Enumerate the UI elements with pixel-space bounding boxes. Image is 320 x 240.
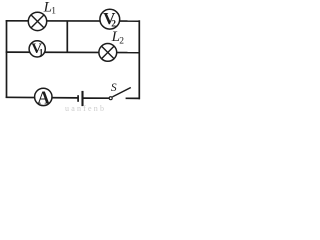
svg-text:S: S bbox=[111, 82, 117, 94]
battery bbox=[78, 91, 82, 106]
lamp L2 bbox=[99, 44, 117, 62]
label L1 bbox=[43, 0, 57, 17]
svg-text:1: 1 bbox=[39, 48, 44, 58]
wire: left vertical (top-left corner to bottom-left corner) bbox=[6, 20, 8, 98]
svg-text:2: 2 bbox=[119, 36, 124, 46]
voltmeter V2 bbox=[100, 9, 120, 29]
svg-text:A: A bbox=[37, 88, 50, 108]
lamp L1 bbox=[28, 12, 46, 30]
wire: battery to switch bbox=[83, 97, 110, 99]
label L2 bbox=[111, 29, 125, 46]
wire: right vertical bbox=[138, 20, 140, 99]
wire: junction vertical between top and middle bbox=[66, 21, 68, 53]
wire: bottom, left corner to battery bbox=[6, 96, 78, 99]
svg-text:uanfenb: uanfenb bbox=[65, 104, 106, 113]
svg-text:2: 2 bbox=[111, 19, 116, 29]
wire: top horizontal bbox=[6, 20, 140, 22]
switch S bbox=[109, 88, 131, 100]
wire: switch to bottom-right corner bbox=[126, 97, 140, 99]
ammeter A bbox=[35, 88, 52, 108]
svg-text:1: 1 bbox=[51, 7, 56, 17]
voltmeter V1 bbox=[29, 41, 45, 58]
wire: middle horizontal bbox=[6, 51, 140, 54]
